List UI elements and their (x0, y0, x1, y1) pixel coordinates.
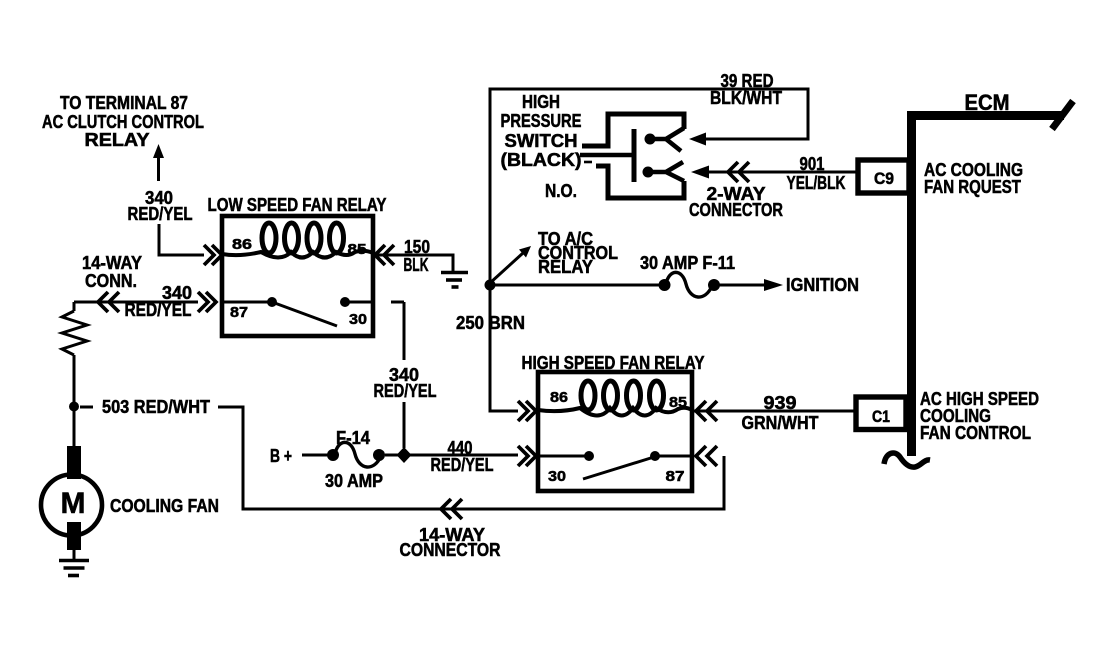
pressure switch common bar (632, 129, 637, 182)
wire stub at 503 label (80, 406, 93, 409)
wire arrow to A/C control relay (490, 253, 523, 283)
label 901 YEL/BLK (787, 154, 846, 193)
svg-text:503 RED/WHT: 503 RED/WHT (102, 397, 210, 417)
svg-text:85: 85 (348, 241, 367, 258)
svg-text:85: 85 (669, 394, 687, 411)
wire dot to pin 87 edge (655, 455, 692, 458)
ground (150 BLK) (441, 271, 468, 275)
svg-text:30 AMP: 30 AMP (325, 471, 383, 491)
svg-text:30: 30 (349, 311, 367, 328)
svg-text:87: 87 (230, 304, 248, 321)
label TO A/C CONTROL RELAY (538, 229, 618, 277)
ECM break squiggle (884, 453, 930, 467)
motor terminal bottom (67, 522, 81, 550)
node switch dot pin 30 side (584, 451, 594, 461)
svg-text:BLK: BLK (404, 255, 429, 275)
label 440 RED/YEL (431, 438, 494, 475)
wire coil row pin 86 to 85 (222, 251, 373, 258)
connector 14-way chevrons (bottom) (441, 499, 462, 519)
fuse F-14 30 AMP (327, 449, 339, 461)
svg-text:TO TERMINAL 87: TO TERMINAL 87 (60, 93, 188, 113)
svg-text:B +: B + (270, 446, 292, 466)
node junction 250 BRN (485, 280, 496, 291)
svg-text:14-WAY: 14-WAY (82, 253, 142, 273)
label 340 RED/YEL (upper) (128, 188, 193, 224)
svg-text:BLK/WHT: BLK/WHT (710, 88, 782, 108)
wire from 340 RED/YEL label to relay pin 86 (159, 224, 204, 255)
wire fuse to ignition (719, 284, 764, 287)
motor M1 cooling fan (41, 475, 102, 536)
label 2-WAY CONNECTOR (689, 184, 783, 220)
svg-text:901: 901 (800, 154, 825, 174)
ECM break slash (1052, 101, 1073, 129)
svg-text:939: 939 (764, 393, 797, 413)
wire 901 YEL/BLK from C9 to switch (709, 171, 858, 174)
wire 503 RED/WHT to 14-way connector (218, 407, 724, 509)
label 39 RED BLK/WHT (710, 71, 782, 108)
wire relay switch row pin 87 (222, 301, 272, 304)
label 340 RED/YEL (lower left) (125, 283, 193, 320)
svg-text:RELAY: RELAY (85, 130, 150, 150)
label 340 RED/YEL (middle) (374, 365, 437, 401)
wire arrow up to AC clutch control relay (157, 156, 160, 181)
connector chevrons pin 85 side (375, 245, 394, 265)
svg-text:RED/YEL: RED/YEL (374, 381, 437, 401)
wire 39 RED BLK/WHT from switch to junction (490, 89, 808, 285)
wire junction to fuse F-11 (490, 284, 659, 287)
connector chevrons HS pin 85 side (696, 401, 717, 421)
svg-text:N.O.: N.O. (545, 181, 577, 201)
connector chevrons into pin 86 (204, 245, 222, 265)
connector chevrons into HS pin 30 (518, 446, 536, 466)
switch blade (open) low speed relay (272, 302, 337, 326)
svg-text:GRN/WHT: GRN/WHT (742, 413, 819, 433)
svg-text:RED/YEL: RED/YEL (128, 204, 193, 224)
svg-text:FAN CONTROL: FAN CONTROL (920, 423, 1031, 443)
svg-text:COOLING FAN: COOLING FAN (110, 496, 219, 516)
wire 939 GRN/WHT C1 to HS pin 85 (692, 410, 856, 413)
ECM module line (907, 111, 916, 456)
svg-text:CONNECTOR: CONNECTOR (400, 540, 501, 560)
connector C9 (858, 160, 909, 193)
label 14-WAY CONN. (82, 253, 142, 291)
arrow into lower contact (691, 166, 709, 179)
wire B+ to fuse F-14 (302, 454, 328, 457)
pressure switch contact upper (645, 134, 656, 145)
svg-text:FAN RQUEST: FAN RQUEST (924, 177, 1021, 197)
wire 250 BRN down to high speed relay pin 86 (490, 285, 518, 411)
coil L1 (low speed relay coil) (262, 223, 276, 253)
svg-text:86: 86 (550, 389, 568, 406)
connector 2-way chevrons (728, 162, 749, 182)
svg-text:C9: C9 (874, 169, 894, 188)
wire motor to ground (73, 550, 76, 559)
pressure switch case lower (596, 166, 684, 198)
svg-text:(BLACK): (BLACK) (501, 150, 582, 170)
motor terminal top (67, 446, 81, 479)
svg-text:M: M (61, 487, 86, 520)
wire 440 RED/YEL to HS relay pin 30 (385, 454, 518, 457)
svg-text:LOW SPEED FAN RELAY: LOW SPEED FAN RELAY (208, 195, 387, 215)
wire 340 RED/YEL to 14-way connector (74, 301, 198, 304)
wire HS switch row pin 30 (538, 455, 589, 458)
connector chevrons pin 87 side (198, 292, 216, 312)
label 939 GRN/WHT (742, 393, 819, 433)
wire LS pin30 to corner (391, 301, 404, 304)
wire down from 14-way conn (73, 302, 76, 311)
pressure switch contact lower (643, 167, 654, 178)
connector C1 (856, 397, 906, 430)
svg-text:PRESSURE: PRESSURE (501, 111, 582, 131)
node junction 503 RED/WHT (69, 402, 79, 412)
wire coil row HS (538, 408, 692, 416)
node contact dot (pin 30 side) (340, 297, 350, 307)
wire 150 BLK from pin 85 to ground (373, 255, 453, 271)
relay box K2 HIGH SPEED FAN RELAY (538, 372, 692, 491)
arrow into upper contact (689, 133, 706, 146)
svg-text:86: 86 (232, 236, 252, 253)
node switch pivot dot (pin 87 side) (267, 297, 277, 307)
svg-text:CONNECTOR: CONNECTOR (689, 200, 783, 220)
fuse F-11 30 AMP (659, 279, 671, 291)
coil L2 (high speed relay coil) (581, 381, 595, 410)
pressure switch port lines (580, 153, 634, 158)
svg-text:SWITCH: SWITCH (505, 131, 578, 151)
svg-text:IGNITION: IGNITION (786, 275, 859, 295)
svg-text:87: 87 (666, 468, 685, 485)
wire from LS pin 30 down to junction (403, 302, 406, 448)
wire dot to pin 30 edge (345, 301, 373, 304)
svg-text:30 AMP F-11: 30 AMP F-11 (640, 253, 735, 273)
node TO TERMINAL 87 AC CLUTCH CONTROL RELAY label (42, 93, 204, 150)
node junction diamond at 440 (397, 447, 412, 463)
svg-text:F-14: F-14 (336, 428, 370, 448)
pressure switch S1 case upper (582, 114, 684, 146)
svg-text:30: 30 (548, 468, 566, 485)
svg-text:RED/YEL: RED/YEL (431, 455, 494, 475)
svg-text:CONN.: CONN. (85, 271, 137, 291)
switch blade (open) high speed relay (583, 457, 654, 479)
connector chevrons into HS pin 86 (518, 401, 536, 421)
svg-text:RELAY: RELAY (538, 257, 593, 277)
wire zigzag to motor (73, 355, 76, 446)
svg-text:C1: C1 (872, 407, 890, 426)
svg-text:HIGH: HIGH (522, 92, 560, 112)
node switch dot pin 87 side (650, 451, 660, 461)
label AC COOLING FAN RQUEST (924, 160, 1023, 197)
svg-text:RED/YEL: RED/YEL (125, 300, 192, 320)
connector chevrons HS pin 87 side (696, 446, 717, 466)
label 150 BLK (404, 237, 431, 275)
label AC HIGH SPEED COOLING FAN CONTROL (920, 389, 1039, 443)
svg-text:HIGH SPEED FAN RELAY: HIGH SPEED FAN RELAY (522, 353, 705, 373)
resistor-like zigzag wire segment (62, 311, 87, 355)
label 14-WAY CONNECTOR (bottom) (400, 525, 501, 560)
label HIGH PRESSURE SWITCH (BLACK) (501, 92, 582, 170)
connector 14-way chevrons (98, 292, 119, 312)
svg-text:YEL/BLK: YEL/BLK (787, 173, 846, 193)
svg-text:150: 150 (404, 237, 430, 257)
ground (cooling fan) (59, 559, 89, 563)
relay box K1 LOW SPEED FAN RELAY (222, 216, 373, 336)
svg-text:ECM: ECM (965, 90, 1010, 115)
svg-text:AC CLUTCH CONTROL: AC CLUTCH CONTROL (42, 112, 204, 132)
